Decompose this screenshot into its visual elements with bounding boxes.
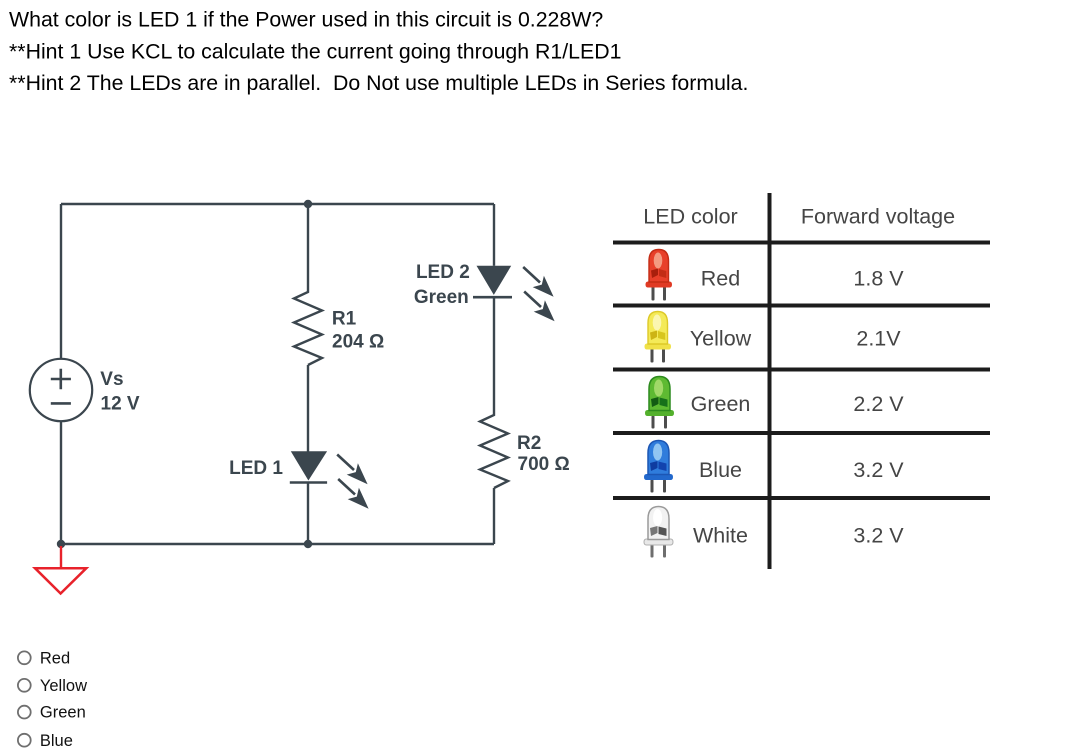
wire middle lower [307,483,309,545]
question text [9,8,748,95]
resistor R2 [480,414,508,488]
wire top [61,203,494,205]
svg-text:Red: Red [701,267,740,291]
svg-text:R2: R2 [517,433,541,454]
svg-text:2.1V: 2.1V [856,327,901,351]
svg-text:12 V: 12 V [101,393,140,414]
svg-text:204 Ω: 204 Ω [332,332,384,353]
svg-text:Yellow: Yellow [40,677,87,695]
svg-text:Green: Green [414,287,469,308]
svg-text:Forward voltage: Forward voltage [801,205,955,229]
table line 4 [613,431,990,435]
junction top middle [304,200,312,208]
svg-text:700 Ω: 700 Ω [518,454,570,475]
LED D1 [290,451,369,509]
LED icon yellow [645,312,672,363]
svg-text:Green: Green [691,392,751,416]
svg-text:Blue: Blue [699,458,742,482]
table line 3 [613,368,990,372]
svg-text:What color is LED 1 if the Pow: What color is LED 1 if the Power used in… [9,8,603,32]
resistor R1 [294,291,322,365]
wire right lower [493,488,495,544]
svg-text:Red: Red [40,649,70,667]
svg-text:Green: Green [40,704,86,722]
wire middle upper [307,204,309,291]
svg-text:Vs: Vs [100,369,123,390]
wire left lower [60,421,62,544]
table line under header [613,241,990,245]
LED D2 [473,266,555,322]
svg-text:LED color: LED color [643,205,737,229]
svg-text:R1: R1 [332,309,357,330]
junction bottom-left [57,540,65,548]
svg-text:Yellow: Yellow [690,327,752,351]
table line 5 [613,496,990,500]
radio option Red [18,649,70,667]
svg-text:**Hint 2 The LEDs are in paral: **Hint 2 The LEDs are in parallel. Do No… [9,71,748,95]
wire left upper [60,204,62,359]
LED icon green [645,377,674,429]
svg-text:**Hint 1 Use KCL to calculate: **Hint 1 Use KCL to calculate the curren… [9,39,621,63]
svg-text:1.8 V: 1.8 V [853,267,904,291]
svg-text:3.2 V: 3.2 V [853,458,904,482]
LED icon red [646,250,673,301]
radio option Green [18,704,86,722]
wire right between LED2 and R2 [493,297,495,414]
voltage source Vs [30,359,92,421]
table line 2 [613,304,990,308]
svg-text:LED 1: LED 1 [229,458,283,479]
wire middle between R1 and LED1 [307,365,309,452]
junction bottom middle [304,540,312,548]
ground [35,546,86,594]
svg-text:White: White [693,524,748,548]
LED icon white [644,507,673,558]
wire bottom [61,543,494,545]
wire right upper [493,204,495,266]
svg-text:Blue: Blue [40,732,73,750]
svg-text:3.2 V: 3.2 V [853,524,904,548]
LED icon blue [644,441,673,493]
table column divider [768,193,772,569]
radio option Yellow [18,677,87,695]
svg-text:2.2 V: 2.2 V [853,392,904,416]
svg-text:LED 2: LED 2 [416,262,470,283]
radio option Blue [18,732,73,750]
